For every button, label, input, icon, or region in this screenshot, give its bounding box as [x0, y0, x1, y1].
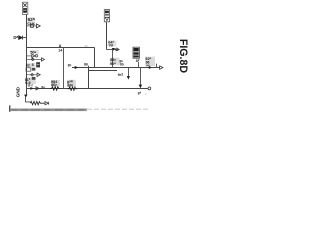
- wire: horizontal from BT1 with junction and connector: [107, 49, 120, 51]
- bus wire 2: [89, 70, 118, 72]
- filled arrow on bus 1: [75, 66, 79, 69]
- ground plane tick (left end of hatched bar): [9, 105, 10, 111]
- open triangle terminating bus 1: [160, 66, 163, 69]
- diode D1 with label: [13, 35, 26, 40]
- junction dot (node VBAT): [112, 48, 115, 51]
- wire: branch from VBAT node down to bus: [112, 50, 114, 68]
- ground plane hatched bar: [10, 109, 87, 112]
- resistor R1: [50, 87, 60, 91]
- svg-text:8: 8: [32, 63, 34, 67]
- junction dot on left bus: [24, 95, 28, 98]
- label cluster 88/90 above bus: [110, 57, 125, 66]
- wire: vertical from BT1 down: [106, 22, 108, 50]
- microcontroller U1 outline (right edge): [94, 48, 96, 68]
- stub wire with down arrow (drop 1): [128, 68, 130, 77]
- svg-text:94: 94: [146, 63, 150, 67]
- port row 1: open triangle and circle: [27, 54, 38, 57]
- svg-text:.:: .:: [145, 92, 147, 96]
- open circle terminating bottom wire: [148, 87, 151, 90]
- wire: L from junction down to resistor R3 row: [26, 97, 31, 102]
- port row 2: diamond and open triangle: [27, 58, 45, 61]
- label cluster 61b/66: [25, 77, 36, 85]
- wire: vertical from 86 node to bottom wire: [88, 66, 90, 89]
- svg-text:62: 62: [26, 64, 30, 68]
- svg-text:GND: GND: [15, 86, 20, 97]
- battery BT1 (top-middle boxed symbol): [104, 10, 109, 22]
- wire: inner vertical divider of U1: [63, 48, 65, 89]
- dashed extension line of ground plane: [87, 108, 149, 110]
- wire tick after triangle: [48, 102, 50, 105]
- wire: stub from J2 to bus 1: [138, 62, 140, 68]
- wire: drop 2 with down arrow to bottom wire: [140, 68, 142, 86]
- resistor R2: [68, 87, 77, 91]
- filled arrow on bottom wire: [30, 87, 33, 90]
- wire: stub from cluster 92 to bus 1: [156, 64, 158, 68]
- connector J2 (dark component above bus): [133, 47, 139, 58]
- label cluster 62/64 with logic symbols: [26, 62, 40, 71]
- label 62a underlay: [27, 17, 35, 24]
- label cluster above resistor R2: [67, 80, 76, 88]
- junction dot on bus 1: [148, 66, 150, 68]
- open triangle on bottom wire: [36, 87, 39, 90]
- label 50a underlay: [30, 50, 39, 54]
- label cluster 92 right of J2: [145, 56, 155, 67]
- svg-text:FIG.8D: FIG.8D: [177, 39, 189, 73]
- wire: main left vertical bus from Y1 down: [26, 14, 28, 95]
- label cluster above resistor R1: [51, 80, 60, 87]
- svg-text:86: 86: [84, 63, 88, 67]
- resistor R3: [30, 101, 44, 104]
- open triangle after R3: [45, 102, 48, 105]
- bus wire 1 (U1 to right connector): [72, 67, 160, 69]
- microcontroller U1 outline (top edge): [27, 47, 95, 49]
- port row 3: open diamond and open triangle: [27, 73, 41, 76]
- open circle terminal: [116, 48, 119, 51]
- buffer B1 row (wire, gate box, open triangle): [27, 24, 41, 28]
- label 64a beside BT1 wire: [108, 40, 117, 48]
- crystal oscillator Y1 (top-left boxed symbol): [22, 2, 27, 14]
- long bottom wire (net VSS): [27, 88, 149, 90]
- svg-text:Vd: Vd: [109, 44, 113, 48]
